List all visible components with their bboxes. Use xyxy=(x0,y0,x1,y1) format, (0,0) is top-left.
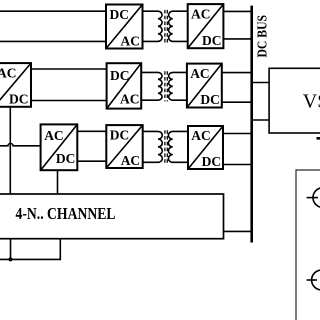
wire bus to VS box bottom xyxy=(253,119,269,121)
wire channel to bus xyxy=(224,230,254,232)
wire bottom return xyxy=(0,239,60,260)
wire row3 mid bottom xyxy=(77,160,106,162)
wire row3 input with hop xyxy=(0,144,41,146)
converter U1 DC/AC row1 xyxy=(106,5,143,49)
junction dot xyxy=(8,257,12,261)
wire row1 to bus bottom xyxy=(223,38,253,40)
svg-text:DC: DC xyxy=(202,33,222,48)
wire bus to VS box top xyxy=(253,82,269,84)
svg-text:AC: AC xyxy=(120,92,140,107)
svg-text:AC: AC xyxy=(44,128,64,143)
converter U5 AC/DC row2 xyxy=(187,64,222,108)
wire U6 down to channel box xyxy=(57,170,59,194)
wire row1 input bottom xyxy=(0,40,106,42)
transformer T3 secondary winding xyxy=(168,131,188,162)
converter U3 AC/DC row2 left (cut at edge) xyxy=(0,63,31,107)
transformer T2 core xyxy=(165,71,167,101)
transformer T2 primary winding xyxy=(141,72,162,100)
svg-text:AC: AC xyxy=(190,66,210,81)
svg-text:DC: DC xyxy=(200,92,220,107)
svg-text:AC: AC xyxy=(191,128,211,143)
AC source G2 xyxy=(307,270,320,290)
svg-text:DC BUS: DC BUS xyxy=(256,15,271,58)
svg-text:4-N.. CHANNEL: 4-N.. CHANNEL xyxy=(16,204,116,223)
DC bus bar xyxy=(250,6,253,243)
wire row3 mid top xyxy=(77,130,106,132)
channel block 4-N CHANNEL xyxy=(0,194,224,239)
svg-text:DC: DC xyxy=(110,68,130,83)
svg-text:DC: DC xyxy=(110,127,130,142)
svg-text:DC: DC xyxy=(202,154,222,169)
wire row2 mid top xyxy=(31,68,107,70)
wire row3 to bus bottom xyxy=(223,164,253,166)
svg-text:DC: DC xyxy=(56,151,76,166)
converter U4 DC/AC row2 xyxy=(107,63,142,108)
svg-text:AC: AC xyxy=(121,33,141,48)
transformer T1 primary winding xyxy=(143,11,163,41)
transformer T1 secondary winding xyxy=(169,11,188,41)
wire row2 to bus top xyxy=(222,72,253,74)
wire U3 down to channel box xyxy=(9,107,11,194)
grid box (cut at right edge) xyxy=(296,170,320,320)
wire row2 to bus bottom xyxy=(222,101,253,103)
wire channel bottom left down xyxy=(10,239,12,260)
AC source G1 xyxy=(307,188,320,208)
converter U7 DC/AC row3 xyxy=(106,125,142,168)
transformer T3 core xyxy=(165,130,167,163)
svg-text:DC: DC xyxy=(110,7,130,22)
svg-text:AC: AC xyxy=(0,65,17,80)
svg-text:AC: AC xyxy=(191,6,211,21)
VS converter box (cut at right edge) xyxy=(269,68,320,133)
svg-text:AC: AC xyxy=(121,153,141,168)
converter U8 AC/DC row3 xyxy=(188,126,223,169)
wire row1 input top xyxy=(0,10,106,12)
converter U2 AC/DC row1 xyxy=(188,4,224,48)
wire row1 to bus top xyxy=(223,10,253,12)
converter U6 AC/DC row3 left xyxy=(41,124,78,170)
transformer T3 primary winding xyxy=(143,131,163,162)
transformer T1 core xyxy=(165,10,167,43)
small mark below VS box xyxy=(317,137,320,140)
transformer T2 secondary winding xyxy=(169,72,187,100)
wire row3 to bus top xyxy=(223,133,253,135)
svg-text:DC: DC xyxy=(9,91,29,106)
svg-text:VS: VS xyxy=(303,90,320,112)
wire row2 mid bottom xyxy=(31,100,107,102)
